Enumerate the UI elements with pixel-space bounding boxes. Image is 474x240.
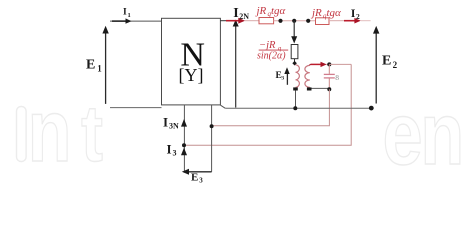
svg-text:tgα: tgα	[327, 7, 342, 19]
resistor Z1 jRq tg a	[259, 18, 274, 24]
current arrow I3	[181, 148, 187, 156]
junction dot	[327, 62, 331, 66]
junction dot	[278, 19, 282, 23]
red feedback wire A (cap bottom to I3 node)	[212, 89, 330, 126]
current arrow I2N (red)	[226, 18, 245, 24]
wire (pink) between resistors	[274, 20, 316, 22]
inductor winding L1 (primary)	[296, 65, 300, 88]
watermark letters en	[383, 85, 465, 183]
svg-text:3: 3	[199, 177, 203, 185]
svg-text:2: 2	[393, 60, 398, 70]
svg-text:t: t	[81, 89, 103, 179]
svg-text:3N: 3N	[169, 122, 179, 131]
wire L2 top connector	[310, 64, 311, 65]
resistor -jRq/sin(2a)	[291, 45, 298, 59]
junction dot	[182, 143, 186, 147]
shunt branch wire down from node	[293, 21, 295, 37]
svg-text:1: 1	[128, 12, 131, 19]
wire L2 bottom to capacitor	[312, 87, 330, 89]
svg-text:jR: jR	[310, 7, 322, 19]
svg-text:sin(2α): sin(2α)	[257, 51, 286, 62]
wire L1 to bottom rail	[295, 90, 297, 108]
terminal square L2 bottom	[307, 87, 312, 90]
terminal square L1 bottom	[293, 87, 298, 90]
wire (pink) after Z2	[329, 20, 345, 22]
inductor winding L2 (secondary)	[305, 65, 310, 87]
wire vertical right leg	[211, 105, 213, 172]
svg-text:[Y]: [Y]	[179, 65, 204, 85]
wire top-left	[110, 20, 162, 22]
wire bottom-left	[110, 107, 162, 109]
capacitor bottom lead	[328, 78, 330, 89]
junction dot (shunt node)	[292, 19, 296, 23]
svg-text:I: I	[351, 6, 356, 20]
svg-text:2N: 2N	[239, 12, 249, 21]
svg-text:3: 3	[173, 148, 177, 157]
phasor arrow E1	[102, 26, 108, 104]
junction dot	[306, 19, 310, 23]
junction dot	[210, 124, 214, 128]
wire resistor to coil	[294, 59, 296, 63]
wire (pink) to resistor Z1	[245, 20, 260, 22]
current arrow (down) into shunt	[291, 36, 297, 43]
phasor arrow (unlabeled, right of box)	[233, 20, 239, 108]
svg-text:8: 8	[335, 73, 339, 82]
capacitor plates	[324, 73, 335, 75]
svg-text:n: n	[420, 85, 464, 183]
svg-text:jR: jR	[255, 5, 267, 17]
svg-text:tgα: tgα	[271, 5, 286, 17]
bottom rail wire	[221, 105, 226, 108]
terminal dot	[292, 61, 297, 66]
phasor arrow E (winding emf)	[284, 67, 289, 85]
svg-text:I: I	[163, 115, 168, 130]
wire top-right from box	[220, 20, 227, 22]
wire (pink) to corner	[329, 63, 351, 65]
svg-text:I: I	[123, 8, 127, 18]
current arrow I1	[112, 18, 132, 23]
capacitor C (top lead)	[328, 64, 330, 74]
svg-text:−jR: −jR	[259, 40, 276, 51]
junction dot	[293, 106, 297, 110]
svg-text:I: I	[167, 141, 172, 156]
svg-text:I: I	[233, 6, 238, 21]
junction dot	[327, 87, 331, 91]
svg-text:2: 2	[356, 12, 360, 21]
network box N [Y]	[162, 18, 221, 105]
svg-text:E: E	[191, 172, 198, 184]
svg-text:1: 1	[97, 64, 102, 74]
phasor arrow E3	[182, 169, 212, 175]
watermark letters Int	[17, 82, 104, 180]
wire vertical I3N leg	[183, 105, 185, 172]
svg-text:3: 3	[281, 75, 284, 81]
svg-text:e: e	[383, 85, 423, 183]
red wire with arrow from L2 top	[311, 62, 329, 67]
current arrow I2 (red)	[344, 18, 361, 24]
svg-text:n: n	[27, 82, 71, 180]
wire pink tail	[361, 20, 371, 22]
red feedback wire B (cap top to I3N node)	[184, 64, 351, 145]
current arrow I3N	[181, 119, 187, 127]
svg-text:E: E	[382, 54, 391, 69]
phasor arrow E2	[373, 26, 379, 104]
terminal dot	[369, 106, 374, 111]
svg-text:E: E	[86, 58, 95, 73]
resistor Z2 jRq tg a	[316, 18, 330, 25]
